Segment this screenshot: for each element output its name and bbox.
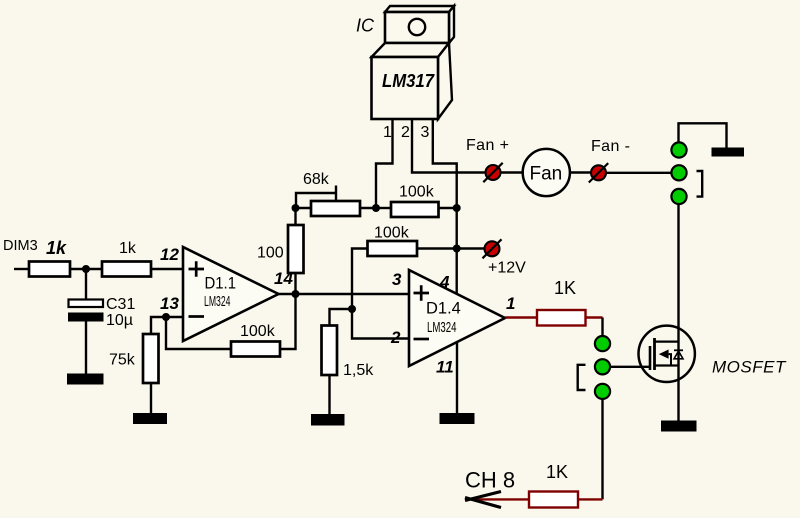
terminal +12V [483,239,502,258]
wire 75k to ground [150,383,152,414]
minus marker [414,338,430,341]
wire drain rail [677,204,679,421]
svg-text:1: 1 [506,294,515,313]
ground [311,414,345,426]
resistor 100k to pin2 [368,241,418,256]
svg-text:LM317: LM317 [382,71,435,91]
transistor MOSFET [639,326,695,382]
ground [67,374,104,385]
wire 100k right to +12V [417,247,484,249]
fan M1 [523,149,570,196]
svg-text:1K: 1K [546,462,568,482]
ground [133,413,167,424]
connector pin X3 [671,189,686,204]
wire feedback right [280,294,296,349]
resistor 100 [288,225,304,273]
wire R2 to op-amp [151,268,183,270]
wire R100k to node B [439,207,457,209]
wire pin 11 to ground [456,342,458,413]
node junction [82,265,90,273]
arrow CH8 [465,492,501,508]
ground [712,148,745,157]
wire feedback left [166,317,231,349]
svg-text:3: 3 [392,270,402,289]
svg-text:1: 1 [383,124,392,141]
svg-text:MOSFET: MOSFET [712,358,787,377]
ground [440,413,475,424]
wire node A to R100k [376,207,391,209]
svg-text:+12V: +12V [488,260,526,277]
wire 100k left to pin 2 input [352,249,409,339]
svg-text:4: 4 [439,273,450,292]
wire output D1.1 to D1.4 [279,293,410,295]
wire gate [611,366,650,368]
svg-text:LM324: LM324 [427,320,457,336]
bracket connector [697,171,703,197]
svg-text:75k: 75k [109,352,136,369]
svg-text:11: 11 [436,358,454,377]
svg-text:12: 12 [160,245,179,264]
node divider junction [348,305,356,313]
node 68k junction [292,204,300,212]
resistor R2 1k [102,262,151,277]
input stub DIM3 [14,268,29,270]
svg-text:Fan: Fan [530,164,563,185]
resistor 1K bottom [529,492,578,508]
regulator IC LM317 package [372,6,455,119]
resistor 1,5k [322,326,338,376]
plus marker [189,261,205,277]
ground [661,421,697,432]
wire pin X1 to ground [679,123,727,148]
op-amp D1.1 [183,247,279,341]
svg-text:3: 3 [421,124,430,141]
svg-text:2: 2 [401,124,410,141]
node 14 junction [292,290,300,298]
wire 1K to arrow [472,498,529,500]
terminal Fan+ [483,163,502,182]
bracket connector [578,365,586,390]
wire pin X6 down [601,400,603,499]
resistor 1K [537,310,586,326]
node A junction [372,204,380,212]
capacitor C31 [68,300,104,322]
wire 1K to pins [586,316,603,318]
svg-text:IC: IC [356,16,375,36]
wire D1.4 output [505,316,537,318]
resistor R1 1k [29,262,70,277]
node B junction [453,204,461,212]
svg-text:D1.1: D1.1 [205,275,237,293]
minus marker [189,315,205,318]
svg-text:13: 13 [160,294,179,313]
wire node13 to 75k [151,317,166,334]
svg-text:1,5k: 1,5k [343,362,374,379]
svg-text:100k: 100k [240,323,276,340]
potentiometer 68k [296,186,377,217]
svg-text:68k: 68k [303,171,330,188]
wire C31 to ground [85,322,87,375]
wire node to 1,5k [330,309,353,326]
terminal Fan- [589,163,608,182]
wire node14 up to R100 [294,273,296,294]
wire R100 to node68k [294,208,296,225]
wire fan to Fan- [570,171,590,173]
svg-text:Fan +: Fan + [466,137,509,154]
wire 1,5k to ground [328,375,330,414]
wire node to C31 [85,269,87,299]
wire inverting input [166,316,183,318]
wire R1 to R2 [70,268,102,270]
wire pin2 to Fan+ line [412,119,485,173]
svg-text:100k: 100k [399,184,435,201]
svg-text:100k: 100k [374,225,410,242]
svg-text:DIM3: DIM3 [3,238,38,254]
svg-text:1K: 1K [554,278,576,298]
svg-text:CH 8: CH 8 [465,468,515,493]
connector pin X2 [671,165,686,180]
wire Fan- to connector [607,172,671,174]
wire Fan+ to fan [501,171,523,173]
wire pin3 to +12V rail [433,119,457,294]
svg-text:1k: 1k [46,238,67,258]
svg-text:D1.4: D1.4 [426,300,461,318]
resistor 100k top [391,202,439,217]
op-amp D1.4 [409,270,505,366]
connector pin X4 [595,336,610,351]
wire pin1 to node A [376,119,393,208]
connector pin X6 [595,384,610,399]
svg-text:C31: C31 [106,296,135,313]
connector pin X1 [671,142,686,157]
svg-text:Fan -: Fan - [591,138,630,155]
svg-text:100: 100 [257,245,284,262]
svg-text:1k: 1k [119,240,137,257]
svg-text:2: 2 [390,328,401,347]
wire to 1K bottom [578,498,603,500]
connector pin X5 [595,359,610,374]
resistor 75k [143,334,159,383]
svg-text:10µ: 10µ [106,312,133,329]
plus marker [414,285,430,301]
svg-text:LM324: LM324 [204,294,231,310]
resistor 100k feedback [231,342,280,357]
node 13 junction [162,313,170,321]
node C junction [453,245,461,253]
